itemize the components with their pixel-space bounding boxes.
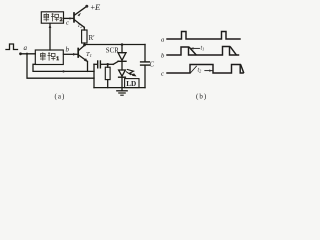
svg-text:R′: R′ <box>89 34 96 42</box>
resistor R' <box>82 30 87 43</box>
wire c (monostable2 out to T2 base) <box>64 17 73 19</box>
SCR <box>121 43 124 46</box>
svg-text:a: a <box>24 44 28 52</box>
resistor (gate) <box>105 67 110 79</box>
svg-text:t2: t2 <box>198 68 202 74</box>
svg-text:b: b <box>66 46 70 54</box>
svg-text:SCR: SCR <box>106 48 119 55</box>
capacitor C <box>144 45 146 62</box>
transistor T2 <box>73 13 75 22</box>
ground <box>121 88 123 91</box>
node +E (supply terminal) <box>85 5 88 8</box>
wire b (monostable1 out to T1 base) <box>64 53 78 55</box>
wire input to monostable1 <box>21 53 36 55</box>
t2 arrow right <box>205 70 213 72</box>
bottom rail <box>94 87 145 89</box>
wire cap to gate <box>101 63 113 65</box>
wire center vertical <box>93 64 95 87</box>
svg-text:C: C <box>150 62 155 69</box>
node R'/collector junction <box>83 44 86 47</box>
t2 leader left <box>191 66 197 72</box>
text 单稳2 (glyph approximation) <box>44 13 63 23</box>
laser diode LD <box>119 70 126 76</box>
wire T1 emitter to rail <box>87 62 89 72</box>
waveform c <box>167 65 243 74</box>
top supply wire <box>85 44 146 46</box>
node a (input terminal dot) <box>19 52 22 55</box>
LD light arrows (flash) <box>128 70 136 76</box>
wire input junction to lower rail <box>27 54 94 78</box>
monostable 2 box <box>41 12 63 23</box>
label LD (boxed) <box>125 79 139 88</box>
junction on rail <box>62 70 64 72</box>
svg-text:c: c <box>161 71 164 78</box>
text 单稳1 (glyph approximation) <box>40 52 59 62</box>
svg-text:2: 2 <box>60 17 63 23</box>
svg-text:(a): (a) <box>55 93 66 101</box>
t1 arrow <box>191 47 200 49</box>
svg-text:c: c <box>66 20 69 27</box>
transistor T1 <box>77 49 79 58</box>
waveform b <box>167 47 239 56</box>
svg-text:1: 1 <box>56 56 59 62</box>
monostable 1 box <box>35 50 63 65</box>
svg-text:(b): (b) <box>196 93 207 101</box>
c trailing edge decay <box>241 65 244 73</box>
svg-text:+E: +E <box>91 2 102 12</box>
capacitor (coupling) <box>94 63 97 65</box>
wire monostable1 to monostable2 <box>49 24 51 51</box>
b trailing edge decay 2 <box>231 47 237 55</box>
wire monostable1 ground to rail <box>33 64 94 71</box>
junction <box>26 53 28 55</box>
waveform a <box>167 32 240 40</box>
svg-text:t1: t1 <box>201 46 205 52</box>
b trailing edge decay 1 <box>190 48 197 55</box>
input pulse icon <box>6 44 18 50</box>
svg-text:T2: T2 <box>78 24 83 29</box>
